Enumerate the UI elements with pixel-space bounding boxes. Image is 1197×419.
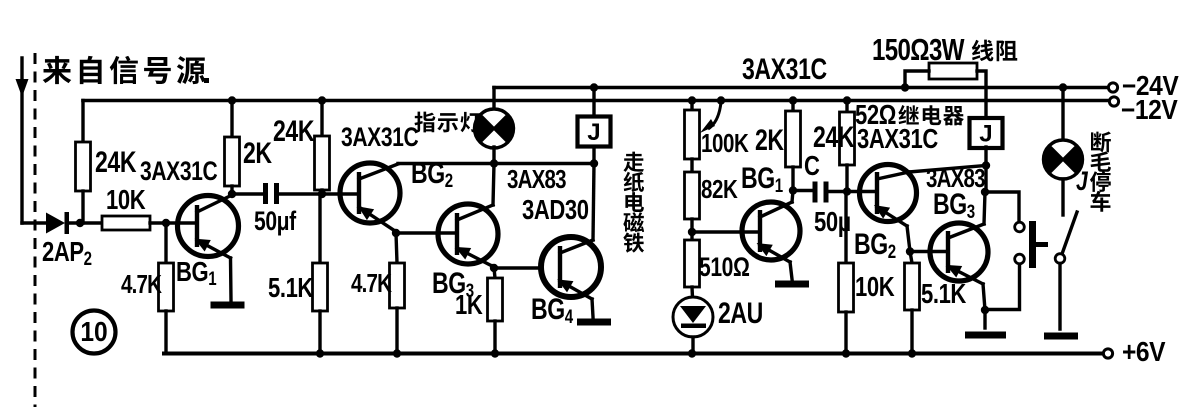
svg-text:5.1K: 5.1K [268,273,313,304]
svg-text:10: 10 [80,316,107,348]
svg-text:52Ω: 52Ω [855,100,896,131]
svg-text:150Ω3W: 150Ω3W [872,32,965,66]
svg-text:50μf: 50μf [254,207,297,237]
svg-text:2K: 2K [243,136,272,169]
svg-text:3AD30: 3AD30 [522,195,589,226]
svg-text:3AX83: 3AX83 [926,164,986,193]
svg-text:82K: 82K [701,175,738,204]
svg-text:3AX31C: 3AX31C [341,123,418,153]
svg-text:3AX31C: 3AX31C [742,52,827,85]
svg-text:+6V: +6V [1122,336,1166,368]
svg-text:4.7K: 4.7K [351,269,392,298]
svg-text:24K: 24K [273,114,315,147]
svg-text:4.7K: 4.7K [121,270,162,299]
svg-text:10K: 10K [106,185,145,216]
svg-text:2K: 2K [755,123,784,156]
svg-text:510Ω: 510Ω [699,253,750,283]
svg-text:100K: 100K [701,129,749,158]
svg-text:24K: 24K [813,120,855,153]
svg-text:J: J [1076,167,1088,197]
svg-text:2AU: 2AU [718,296,763,329]
svg-text:24K: 24K [95,145,137,178]
svg-text:3AX83: 3AX83 [507,165,567,194]
svg-text:J: J [979,121,992,148]
svg-text:J: J [587,119,600,146]
svg-text:1K: 1K [455,290,483,321]
svg-text:C: C [804,151,820,182]
svg-text:3AX31C: 3AX31C [140,157,217,187]
svg-text:10K: 10K [855,272,894,303]
svg-text:−12V: −12V [1121,94,1178,126]
